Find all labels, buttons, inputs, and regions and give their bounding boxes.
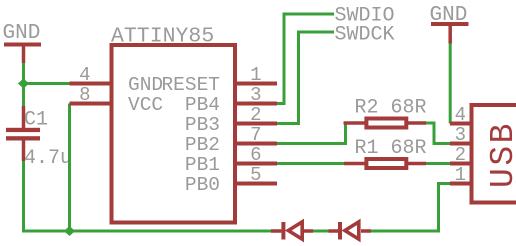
svg-text:R2 68R: R2 68R xyxy=(355,96,427,119)
resistor R2 xyxy=(344,119,427,128)
svg-text:PB2: PB2 xyxy=(185,134,220,156)
pin 1 stub right xyxy=(235,82,277,86)
svg-text:4.7u: 4.7u xyxy=(24,147,72,170)
pin 8 stub left xyxy=(70,102,112,106)
svg-text:3: 3 xyxy=(250,84,261,106)
svg-text:GND: GND xyxy=(128,74,163,96)
wire GND to C1/pin4 vertical xyxy=(22,63,25,106)
svg-text:PB4: PB4 xyxy=(185,94,220,116)
svg-text:SWDCK: SWDCK xyxy=(335,23,395,46)
ground GND right symbol xyxy=(431,24,469,44)
wire between diodes xyxy=(313,230,329,233)
wire pin6 to R1 xyxy=(277,162,345,165)
svg-text:R1 68R: R1 68R xyxy=(355,137,427,160)
wire pin7 to R2 xyxy=(277,123,346,144)
connector USB box xyxy=(472,105,516,203)
IC U1 ATTINY85 xyxy=(112,45,236,223)
svg-text:1: 1 xyxy=(455,164,466,186)
svg-text:4: 4 xyxy=(455,104,466,126)
pin 6 stub right xyxy=(235,162,277,166)
svg-text:1: 1 xyxy=(250,64,261,86)
wire bottom rail to USB pin1 xyxy=(371,184,451,232)
pin 3 stub right xyxy=(235,102,277,106)
svg-text:ATTINY85: ATTINY85 xyxy=(111,24,214,48)
svg-text:RESET: RESET xyxy=(161,74,220,96)
wire GND right to USB pin4 xyxy=(449,44,452,124)
wire pin3 to SWDIO xyxy=(277,14,334,104)
pin 2 stub USB xyxy=(450,162,472,166)
resistor R1 xyxy=(344,159,426,168)
diode D1 xyxy=(271,222,313,240)
svg-text:5: 5 xyxy=(250,164,261,186)
capacitor C1 xyxy=(6,106,40,161)
diode D2 xyxy=(329,222,372,240)
svg-text:2: 2 xyxy=(455,144,466,166)
svg-text:7: 7 xyxy=(250,124,261,146)
svg-text:VCC: VCC xyxy=(128,94,163,116)
pin 2 stub right xyxy=(235,122,277,126)
svg-text:C1: C1 xyxy=(24,109,48,132)
wire R1 to USB pin2 xyxy=(426,162,451,165)
svg-text:GND: GND xyxy=(430,4,468,27)
pin 4 stub left xyxy=(70,82,112,86)
svg-text:8: 8 xyxy=(79,84,90,106)
wire C1 to bottom rail xyxy=(24,161,272,231)
ground GND left symbol xyxy=(4,45,41,64)
pin 7 stub right xyxy=(235,142,277,146)
svg-text:PB3: PB3 xyxy=(185,114,220,136)
wire pin2 to SWDCK xyxy=(277,32,334,124)
pin 3 stub USB xyxy=(450,142,472,146)
svg-text:PB1: PB1 xyxy=(185,154,220,176)
svg-text:4: 4 xyxy=(79,64,90,86)
node junction at pin4 tap xyxy=(18,79,29,89)
svg-text:6: 6 xyxy=(250,144,261,166)
pin 4 stub USB xyxy=(450,122,472,126)
pin 5 stub right xyxy=(235,182,277,186)
svg-text:GND: GND xyxy=(3,22,41,45)
svg-text:PB0: PB0 xyxy=(185,174,220,196)
svg-text:USB: USB xyxy=(485,121,516,188)
svg-text:2: 2 xyxy=(250,104,261,126)
node junction bottom rail / VCC xyxy=(64,226,75,236)
pin 1 stub USB xyxy=(450,182,472,186)
wire R2 to USB pin3 xyxy=(426,123,451,144)
svg-text:3: 3 xyxy=(455,124,466,146)
wire VCC vertical xyxy=(68,104,71,232)
wire pin4 horizontal xyxy=(24,82,71,85)
